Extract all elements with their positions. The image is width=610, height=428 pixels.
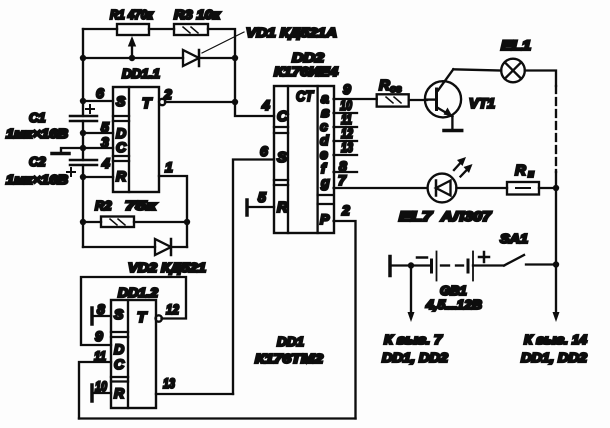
DD2 pin 8 stub: [334, 158, 357, 174]
DD1.1 pin 2 output: [159, 86, 235, 105]
svg-text:2: 2: [341, 202, 350, 218]
svg-text:DD1, DD2: DD1, DD2: [521, 350, 588, 365]
svg-text:5: 5: [101, 119, 109, 135]
node Rn right junction: [553, 185, 559, 191]
wire DD1.2 pin13 up to DD2 pin 6: [233, 160, 274, 395]
svg-text:9: 9: [95, 328, 103, 344]
wire top left from rail to R1: [83, 28, 117, 30]
node R1 top rail junction: [80, 55, 86, 61]
svg-text:C1: C1: [29, 110, 46, 125]
svg-text:VT1: VT1: [469, 96, 495, 111]
flip-flop DD1.1: [113, 66, 160, 192]
diode VD2: [83, 239, 206, 275]
svg-text:SA1: SA1: [500, 231, 528, 246]
DD1.1 pin 6: [83, 85, 113, 101]
svg-text:1мк×16В: 1мк×16В: [6, 127, 68, 141]
svg-text:К176ИЕ4: К176ИЕ4: [274, 64, 339, 79]
DD2 pin 7 wire to EL7: [334, 172, 427, 188]
DD1.1 pin 4: [83, 155, 113, 177]
svg-text:DD1.2: DD1.2: [118, 285, 159, 300]
svg-text:н: н: [528, 169, 534, 180]
resistor R3 10k: [174, 7, 222, 35]
node R2 right junction: [184, 219, 190, 225]
svg-text:13: 13: [163, 375, 175, 391]
svg-text:К выв. 7: К выв. 7: [384, 332, 443, 347]
resistor R2 75k: [83, 198, 187, 227]
svg-text:GB1: GB1: [440, 283, 467, 298]
svg-text:К176ТМ2: К176ТМ2: [255, 351, 324, 366]
output arrow K vyv.7: [382, 266, 449, 366]
DD1.2 pin 11 wire to bottom: [79, 348, 111, 419]
left rail segments: [82, 29, 84, 116]
DD2 pin 10 stub: [334, 97, 357, 113]
wire bottom long: [79, 417, 356, 419]
svg-text:12: 12: [166, 301, 179, 317]
wire R1 to R3: [149, 28, 174, 30]
node pin5 junction: [80, 130, 86, 136]
node R2 left junction: [80, 219, 86, 225]
svg-text:75к: 75к: [125, 198, 158, 213]
svg-text:АЛ307: АЛ307: [440, 209, 493, 224]
svg-text:D: D: [114, 341, 124, 357]
svg-text:11: 11: [94, 348, 106, 364]
node GB1 minus junction: [408, 262, 414, 268]
svg-text:C: C: [114, 356, 125, 372]
wire R3 to right corner and down to node: [208, 29, 274, 116]
output arrow K vyv.14: [521, 265, 588, 366]
IC label DD1 K176TM2: [255, 334, 324, 366]
svg-text:4: 4: [261, 97, 270, 113]
counter DD2: [274, 50, 339, 233]
svg-text:5: 5: [258, 189, 266, 205]
svg-text:R3 10к: R3 10к: [174, 7, 222, 22]
node SA1 right junction: [553, 261, 559, 267]
svg-text:S: S: [116, 93, 126, 109]
svg-text:R: R: [277, 199, 288, 216]
battery GB1: [390, 252, 504, 313]
flip-flop DD1.2: [111, 285, 159, 408]
svg-text:R: R: [114, 385, 125, 401]
DD1.2 pin 12 output loop to pin 9: [81, 277, 186, 345]
svg-text:R: R: [515, 162, 526, 179]
svg-text:R: R: [116, 168, 127, 184]
wire EL7 to Rn: [456, 187, 507, 189]
wire dashed vertical: [555, 86, 557, 172]
svg-text:8: 8: [97, 301, 105, 317]
node VD1 right junction: [232, 55, 238, 61]
svg-text:6: 6: [96, 85, 104, 101]
LED EL7: [399, 157, 493, 224]
svg-text:R2: R2: [95, 198, 112, 213]
switch SA1: [500, 231, 556, 266]
resistor Rn: [507, 162, 556, 195]
wire EL1 to right corner: [525, 71, 556, 87]
DD2 pin 5 with ground bar: [247, 189, 274, 215]
wire right rail Rn to SA1: [555, 188, 557, 265]
node pin3/ground junction: [80, 145, 86, 151]
svg-text:P: P: [320, 211, 330, 227]
svg-text:DD2: DD2: [292, 50, 325, 65]
svg-text:2: 2: [163, 86, 172, 102]
resistor R1 470k (variable, with arrow): [110, 7, 154, 57]
wire collector to EL1: [453, 69, 501, 70]
capacitor C1: [6, 105, 97, 141]
lamp EL1: [501, 38, 531, 82]
resistor Rog: [377, 77, 427, 107]
svg-text:VD2 КД521: VD2 КД521: [128, 260, 206, 275]
DD1.2 pin 13 output: [156, 375, 233, 394]
wire second horizontal (VD1 branch) left part: [83, 57, 183, 59]
svg-text:CT: CT: [296, 88, 315, 105]
DD1.2 pin 8 with ground bar: [92, 301, 111, 324]
svg-text:R: R: [379, 77, 390, 94]
svg-text:4,5...12В: 4,5...12В: [425, 297, 482, 312]
svg-text:C: C: [277, 108, 289, 125]
node pin2/DD2-C junction: [232, 99, 238, 105]
svg-text:13: 13: [341, 139, 353, 155]
DD1.1 pin 1 output: [159, 159, 187, 247]
svg-text:S: S: [277, 149, 287, 166]
svg-text:VD1 КД521А: VD1 КД521А: [246, 25, 337, 40]
capacitor C2: [6, 154, 97, 187]
svg-text:T: T: [137, 309, 148, 326]
svg-text:1мк×16В: 1мк×16В: [6, 173, 68, 187]
svg-text:R1 470к: R1 470к: [110, 7, 154, 22]
DD2 pin 13 stub: [334, 139, 357, 155]
svg-text:7: 7: [338, 172, 347, 188]
svg-text:g: g: [320, 174, 330, 190]
DD1.1 pin 3: [83, 134, 113, 150]
DD2 pin 2 (P) wire down: [334, 202, 356, 419]
DD1.2 pin 10 with ground bar: [92, 378, 111, 401]
svg-text:C2: C2: [29, 154, 46, 169]
svg-text:3: 3: [101, 134, 109, 150]
transistor VT1: [425, 69, 495, 130]
svg-text:S: S: [114, 306, 124, 322]
diode VD1: [183, 25, 337, 66]
DD2 pin 12 stub: [334, 125, 357, 141]
svg-text:DD1.1: DD1.1: [122, 66, 160, 81]
node pin4/C2 junction: [80, 174, 86, 180]
svg-text:T: T: [142, 95, 153, 112]
svg-text:DD1, DD2: DD1, DD2: [382, 350, 449, 365]
svg-text:EL7: EL7: [399, 209, 434, 224]
svg-text:4: 4: [101, 155, 110, 171]
svg-text:DD1: DD1: [277, 334, 304, 349]
wire VD1 to vertical: [199, 57, 235, 59]
DD2 pin 11 stub: [334, 111, 357, 127]
node R1 wiper junction: [129, 55, 135, 61]
DD1.1 pin 5: [83, 119, 113, 135]
svg-text:6: 6: [260, 143, 268, 159]
ground at pin 3 node: [52, 148, 83, 154]
svg-text:1: 1: [165, 159, 173, 175]
svg-text:К выв. 14: К выв. 14: [524, 332, 588, 347]
svg-text:9: 9: [343, 81, 351, 97]
DD2 pin 9 wire to Rog: [334, 81, 377, 99]
svg-text:EL1: EL1: [501, 38, 531, 53]
node pin6/C1 junction: [80, 98, 86, 104]
svg-text:C: C: [116, 139, 127, 155]
svg-text:10: 10: [95, 378, 107, 394]
svg-text:ог: ог: [390, 84, 402, 95]
